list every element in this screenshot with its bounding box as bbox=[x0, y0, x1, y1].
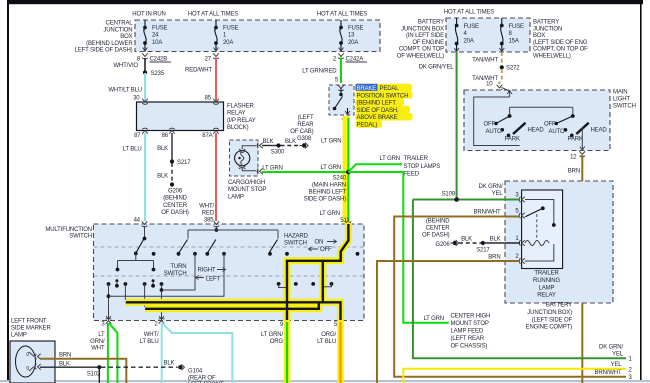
svg-text:2: 2 bbox=[333, 57, 337, 63]
svg-text:20A: 20A bbox=[348, 40, 358, 46]
svg-text:BRN: BRN bbox=[488, 255, 500, 261]
svg-text:20A: 20A bbox=[223, 40, 233, 46]
svg-text:OFF: OFF bbox=[320, 247, 332, 253]
central junction box (fuse box, top left) bbox=[75, 12, 380, 54]
svg-text:LT BLU: LT BLU bbox=[140, 339, 159, 345]
svg-text:SIDE MARKER: SIDE MARKER bbox=[11, 326, 52, 332]
svg-text:G206: G206 bbox=[168, 189, 183, 195]
svg-text:10: 10 bbox=[486, 82, 493, 88]
headlamp switch pole 2 (OFF/AUTO/PARK/HEAD) bbox=[544, 114, 607, 142]
svg-text:85: 85 bbox=[205, 96, 212, 102]
svg-text:BLK: BLK bbox=[461, 237, 472, 243]
fuse 1 20A bbox=[214, 20, 239, 51]
svg-text:10A: 10A bbox=[152, 40, 162, 46]
wire BLK cargo lamp to splice S300 and ground G308 bbox=[262, 115, 314, 156]
svg-text:(BEHIND: (BEHIND bbox=[163, 196, 187, 202]
relay internal contact and coil bbox=[525, 200, 556, 262]
svg-text:JUNCTION BOX): JUNCTION BOX) bbox=[527, 310, 572, 316]
svg-text:LT BLU: LT BLU bbox=[317, 339, 336, 345]
svg-text:LT GRN: LT GRN bbox=[423, 316, 444, 322]
svg-text:FUSE: FUSE bbox=[348, 26, 364, 32]
svg-text:PEDAL): PEDAL) bbox=[357, 123, 378, 129]
wire DK GRN/YEL (S109 left, down, to right edge pin 1) bbox=[413, 200, 626, 359]
wire RED/WHT (pin 27 to flasher pin 85) bbox=[185, 58, 216, 102]
svg-text:2: 2 bbox=[154, 322, 158, 328]
svg-text:TRAILER: TRAILER bbox=[404, 156, 429, 162]
svg-text:GRN/: GRN/ bbox=[90, 339, 105, 345]
svg-text:AUTO: AUTO bbox=[486, 129, 502, 135]
fuse 4 20A bbox=[454, 18, 479, 52]
connector C242A pin 2 bbox=[333, 53, 367, 62]
svg-text:BEHIND LEFT: BEHIND LEFT bbox=[309, 190, 347, 196]
fuse 13 20A bbox=[339, 20, 364, 51]
highlighted wire LT GRN (brake switch pin 4 down to S240/511) bbox=[343, 116, 350, 223]
svg-text:OF ENGINE: OF ENGINE bbox=[412, 40, 444, 46]
svg-text:(BEHIND: (BEHIND bbox=[426, 219, 450, 225]
svg-text:COMPT, ON TOP OF: COMPT, ON TOP OF bbox=[533, 47, 588, 53]
svg-text:JUNCTION: JUNCTION bbox=[103, 27, 132, 33]
svg-text:RED: RED bbox=[202, 211, 215, 217]
svg-text:FEED: FEED bbox=[404, 172, 420, 178]
wire WHT/LT BLU (pin 2 down, two branches) bbox=[140, 323, 233, 383]
svg-text:BLK: BLK bbox=[157, 146, 168, 152]
svg-text:MOUNT STOP: MOUNT STOP bbox=[228, 187, 266, 193]
pin 27 bbox=[205, 53, 219, 62]
wire LT BLU (flasher 87 to multifunction 44) bbox=[123, 133, 145, 224]
svg-text:JUNCTION: JUNCTION bbox=[533, 26, 562, 32]
splice S109 on DK GRN/YEL bbox=[413, 184, 520, 202]
svg-text:OF CAB): OF CAB) bbox=[290, 129, 313, 135]
svg-text:27: 27 bbox=[205, 57, 212, 63]
svg-text:SWITCH: SWITCH bbox=[284, 241, 307, 247]
turn switch contact row bbox=[107, 279, 334, 287]
svg-text:LT GRN: LT GRN bbox=[320, 165, 341, 171]
svg-text:S109: S109 bbox=[442, 192, 456, 198]
flasher relay (I/P relay block) bbox=[134, 99, 256, 139]
svg-text:REAR: REAR bbox=[297, 122, 314, 128]
svg-text:LT GRN/RED: LT GRN/RED bbox=[302, 69, 337, 75]
svg-text:YEL: YEL bbox=[611, 362, 623, 368]
wire LT GRN cargo lamp to splice S240 bbox=[262, 165, 348, 172]
svg-text:BOX: BOX bbox=[533, 33, 545, 39]
svg-text:(LEFT: (LEFT bbox=[298, 115, 314, 121]
wire BRN (relay pin 2 left then down off-page) bbox=[377, 255, 520, 383]
wire YEL (from bottom edge to right edge pin 2) bbox=[403, 362, 632, 383]
svg-text:RUNNING: RUNNING bbox=[533, 278, 560, 284]
svg-text:RELAY: RELAY bbox=[537, 293, 556, 299]
svg-text:POSITION SWITCH: POSITION SWITCH bbox=[357, 93, 409, 99]
svg-text:LEFT FRONT: LEFT FRONT bbox=[11, 319, 47, 325]
svg-text:BLK: BLK bbox=[164, 361, 175, 367]
svg-text:(MAIN HARN: (MAIN HARN bbox=[312, 183, 346, 189]
svg-text:HAZARD: HAZARD bbox=[284, 234, 309, 240]
svg-text:LAMP: LAMP bbox=[228, 194, 244, 200]
multifunction switch box bbox=[45, 224, 364, 321]
svg-text:MOUNT STOP: MOUNT STOP bbox=[451, 321, 489, 327]
svg-text:RIGHT: RIGHT bbox=[198, 268, 216, 274]
brake pedal position switch (highlighted) bbox=[329, 85, 354, 123]
wire LT GRN trailer stop lamps feed stub bbox=[348, 156, 440, 178]
svg-text:YEL: YEL bbox=[492, 191, 504, 197]
multifunction pins 3 / 2 / 9 / 5 (bottom) bbox=[106, 321, 112, 324]
svg-text:(LEFT REAR: (LEFT REAR bbox=[451, 336, 485, 342]
svg-text:DK GRN/: DK GRN/ bbox=[599, 345, 623, 351]
svg-text:44: 44 bbox=[134, 218, 141, 224]
svg-text:FUSE: FUSE bbox=[223, 26, 239, 32]
wire ORG/LT BLU highlighted (pin 5 down) bbox=[317, 320, 344, 383]
svg-text:SWITCH: SWITCH bbox=[164, 271, 187, 277]
main light switch bbox=[464, 88, 636, 151]
svg-text:LEFT: LEFT bbox=[206, 277, 221, 283]
wire LT GRN/RED (C242A to brake switch pin 5) bbox=[302, 58, 341, 84]
svg-text:BRAKE: BRAKE bbox=[357, 86, 377, 92]
svg-text:WHT/VIO: WHT/VIO bbox=[113, 63, 138, 69]
ground G206 behind center of dash (relay side) with splice S217 bbox=[422, 219, 520, 254]
svg-text:WHT/LT BLU: WHT/LT BLU bbox=[108, 88, 142, 94]
svg-text:DK GRN/YEL: DK GRN/YEL bbox=[419, 65, 455, 71]
svg-text:ORG: ORG bbox=[270, 339, 284, 345]
splice S240 bbox=[346, 170, 351, 175]
svg-text:15A: 15A bbox=[509, 38, 519, 44]
svg-text:WHT/: WHT/ bbox=[199, 204, 214, 210]
hazard switch contact stubs bbox=[279, 284, 286, 287]
wire WHT/LT BLU (S235 to flasher pin 30) bbox=[108, 73, 145, 102]
svg-text:BRN: BRN bbox=[59, 353, 71, 359]
svg-text:BLOCK): BLOCK) bbox=[227, 125, 249, 131]
svg-text:YEL: YEL bbox=[612, 352, 624, 358]
svg-text:WHEELWELL): WHEELWELL) bbox=[533, 54, 571, 60]
cargo/high mount stop lamp bbox=[228, 140, 266, 200]
svg-text:ABOVE BRAKE: ABOVE BRAKE bbox=[357, 115, 398, 121]
svg-text:ON: ON bbox=[315, 240, 324, 246]
relay pin 3 bbox=[515, 193, 524, 203]
svg-text:CARGO/HIGH: CARGO/HIGH bbox=[228, 180, 265, 186]
svg-text:HOT IN RUN: HOT IN RUN bbox=[132, 12, 165, 18]
svg-text:OFF: OFF bbox=[544, 122, 556, 128]
svg-text:TURN: TURN bbox=[170, 264, 186, 270]
svg-text:TAN/WHT: TAN/WHT bbox=[472, 58, 498, 64]
svg-text:TRAILER: TRAILER bbox=[534, 271, 559, 277]
svg-text:RED/WHT: RED/WHT bbox=[185, 68, 212, 74]
wire frame: left border line bbox=[7, 0, 9, 381]
wire BLK with splice S217 to ground G206 bbox=[157, 133, 191, 216]
svg-text:MULTIFUNCTION: MULTIFUNCTION bbox=[45, 227, 92, 233]
svg-text:BRN/WHT: BRN/WHT bbox=[474, 210, 501, 216]
svg-text:13: 13 bbox=[348, 33, 355, 39]
wire LT GRN/WHT (pin 3 down, two branches) bbox=[90, 323, 117, 383]
fuse 24 10A bbox=[143, 20, 168, 51]
svg-text:(BEHIND LOWER: (BEHIND LOWER bbox=[86, 41, 133, 47]
wire BLK with splice S102 to ground G104 bbox=[40, 361, 224, 383]
svg-text:3: 3 bbox=[101, 322, 105, 328]
svg-text:S235: S235 bbox=[151, 71, 165, 77]
svg-text:G308: G308 bbox=[297, 136, 312, 142]
highlighted hazard feed path (yellow) bbox=[126, 223, 349, 320]
svg-text:WHT/: WHT/ bbox=[144, 332, 159, 338]
svg-text:BRN: BRN bbox=[568, 169, 580, 175]
svg-text:CENTRAL: CENTRAL bbox=[106, 21, 134, 27]
svg-text:FLASHER: FLASHER bbox=[227, 104, 254, 110]
svg-text:LAMP FEED: LAMP FEED bbox=[451, 329, 484, 335]
svg-text:87A: 87A bbox=[202, 133, 212, 139]
svg-text:LT: LT bbox=[98, 332, 105, 338]
svg-text:SIDE OF DASH): SIDE OF DASH) bbox=[304, 197, 347, 203]
svg-text:HEAD: HEAD bbox=[528, 128, 545, 134]
svg-text:8: 8 bbox=[137, 57, 141, 63]
svg-text:PARK: PARK bbox=[505, 136, 520, 142]
svg-text:FUSE: FUSE bbox=[509, 24, 525, 30]
svg-text:FUSE: FUSE bbox=[152, 26, 168, 32]
svg-text:BLK: BLK bbox=[285, 139, 296, 145]
svg-text:BOX: BOX bbox=[120, 34, 132, 40]
multifunction pins 44 / 385 / 511 (top) bbox=[142, 221, 148, 224]
svg-text:WHT: WHT bbox=[91, 345, 105, 351]
svg-text:0: 0 bbox=[26, 352, 29, 358]
svg-text:12: 12 bbox=[570, 155, 577, 161]
svg-text:LT GRN/: LT GRN/ bbox=[261, 332, 284, 338]
svg-text:S300: S300 bbox=[271, 150, 285, 156]
internal wire pin2 column bbox=[161, 284, 163, 320]
svg-text:(LEFT SIDE OF ENG: (LEFT SIDE OF ENG bbox=[533, 40, 588, 46]
trailer running lamp relay inner body bbox=[522, 190, 563, 269]
svg-text:ENGINE COMPT): ENGINE COMPT) bbox=[526, 325, 573, 331]
svg-text:G206: G206 bbox=[435, 242, 450, 248]
svg-text:20A: 20A bbox=[464, 38, 474, 44]
svg-text:87: 87 bbox=[134, 133, 141, 139]
turn switch internal wiring bbox=[116, 226, 360, 283]
ground G308 (left rear of cab) bbox=[302, 143, 306, 147]
headlamp switch pole 1 (OFF/AUTO/PARK/HEAD) bbox=[483, 114, 544, 142]
svg-text:OF WHEELWELL): OF WHEELWELL) bbox=[397, 54, 444, 60]
svg-text:0: 0 bbox=[26, 366, 29, 372]
wire WHT/RED (flasher 87A to multifunction 385) bbox=[199, 133, 216, 224]
wire BRN (marker lamp down) bbox=[40, 353, 126, 383]
svg-text:LT GRN: LT GRN bbox=[379, 156, 400, 162]
svg-text:9: 9 bbox=[280, 322, 284, 328]
svg-text:(REAR OF: (REAR OF bbox=[188, 375, 216, 381]
svg-text:LEFT SIDE OF DASH): LEFT SIDE OF DASH) bbox=[75, 48, 133, 54]
wire LT GRN (S240 right then down centre-high-mount feed) bbox=[348, 172, 448, 323]
svg-text:OF DASH): OF DASH) bbox=[422, 233, 450, 239]
svg-text:LT GRN: LT GRN bbox=[319, 211, 340, 217]
svg-text:AUTO: AUTO bbox=[549, 129, 565, 135]
svg-text:385: 385 bbox=[204, 218, 214, 224]
svg-text:PEDAL: PEDAL bbox=[380, 86, 400, 92]
svg-text:30: 30 bbox=[133, 96, 140, 102]
wire WHT/VIO with splice S235 bbox=[113, 58, 164, 77]
svg-text:JUNCTION BOX: JUNCTION BOX bbox=[401, 26, 444, 32]
svg-text:(IN LEFT SIDE: (IN LEFT SIDE bbox=[406, 33, 444, 39]
svg-text:OF CHASSIS): OF CHASSIS) bbox=[451, 344, 488, 350]
svg-text:S272: S272 bbox=[506, 66, 520, 72]
fuse 8 15A bbox=[499, 18, 524, 52]
svg-text:BLK: BLK bbox=[263, 139, 274, 145]
svg-text:RELAY: RELAY bbox=[227, 111, 246, 117]
highlighted label: brake pedal position switch text bbox=[356, 84, 413, 129]
svg-text:OFF: OFF bbox=[483, 122, 495, 128]
relay pin 2 bbox=[515, 254, 524, 264]
svg-text:HOT AT ALL TIMES: HOT AT ALL TIMES bbox=[317, 12, 367, 18]
svg-text:LIGHT: LIGHT bbox=[613, 97, 630, 103]
svg-text:CENTER: CENTER bbox=[426, 226, 451, 232]
battery junction box (fuses 4 and 8) bbox=[397, 10, 588, 60]
svg-text:HOT AT ALL TIMES: HOT AT ALL TIMES bbox=[444, 10, 494, 16]
svg-text:COMPT. ON TOP: COMPT. ON TOP bbox=[399, 47, 444, 53]
wire TAN/WHT with splice S272 to main light switch pin 10 bbox=[472, 52, 520, 90]
wire frame: right border line bbox=[640, 3, 642, 381]
wire DK GRN/YEL (fuse 4 down to S109) bbox=[419, 52, 457, 200]
svg-text:SIDE OF DASH,: SIDE OF DASH, bbox=[357, 108, 400, 114]
svg-text:BLK: BLK bbox=[157, 174, 168, 180]
svg-text:LAMP: LAMP bbox=[539, 285, 555, 291]
svg-text:SWITCH: SWITCH bbox=[613, 104, 636, 110]
svg-text:86: 86 bbox=[162, 133, 169, 139]
wire LT GRN/ORG highlighted (pin 9 down) bbox=[261, 320, 290, 383]
relay pin 1 bbox=[515, 236, 524, 246]
svg-text:S217: S217 bbox=[177, 160, 191, 166]
svg-text:LT GRN: LT GRN bbox=[262, 166, 283, 172]
svg-text:BLK: BLK bbox=[59, 361, 70, 367]
svg-text:CENTER HIGH: CENTER HIGH bbox=[451, 314, 491, 320]
wire BRN/WHT (relay pin 5 left, down, to right edge pin 3) bbox=[394, 210, 632, 382]
trailer running lamp relay outer box (battery junction box) bbox=[505, 181, 613, 303]
svg-text:2: 2 bbox=[629, 368, 633, 374]
main light switch pin 12 bbox=[570, 128, 585, 161]
svg-text:LT BLU: LT BLU bbox=[123, 147, 142, 153]
svg-text:BLK: BLK bbox=[490, 237, 501, 243]
svg-text:HEAD: HEAD bbox=[591, 128, 608, 134]
internal wire pin3 column bbox=[108, 284, 110, 320]
svg-text:1: 1 bbox=[629, 357, 633, 363]
svg-text:SWITCH: SWITCH bbox=[69, 234, 92, 240]
svg-text:FUSE: FUSE bbox=[464, 24, 480, 30]
svg-text:LAMP: LAMP bbox=[11, 333, 27, 339]
svg-text:ORG/: ORG/ bbox=[321, 332, 336, 338]
wire frame: top black border bar bbox=[7, 0, 643, 4]
svg-text:S240: S240 bbox=[333, 176, 347, 182]
svg-text:MAIN: MAIN bbox=[613, 90, 627, 96]
svg-text:CENTER: CENTER bbox=[163, 203, 188, 209]
svg-text:PARK: PARK bbox=[568, 136, 583, 142]
svg-text:DK GRN/: DK GRN/ bbox=[479, 184, 503, 190]
svg-text:BATTERY: BATTERY bbox=[418, 20, 444, 26]
svg-text:HOT AT ALL TIMES: HOT AT ALL TIMES bbox=[188, 12, 238, 18]
svg-text:(BEHIND LEFT: (BEHIND LEFT bbox=[357, 101, 397, 107]
svg-text:24: 24 bbox=[152, 33, 159, 39]
svg-text:S217: S217 bbox=[476, 248, 490, 254]
svg-text:(LEFT SIDE OF: (LEFT SIDE OF bbox=[532, 317, 573, 323]
wire frame: bottom gray rule bbox=[0, 380, 650, 382]
svg-text:STOP LAMPS: STOP LAMPS bbox=[404, 164, 441, 170]
svg-text:BATTERY: BATTERY bbox=[546, 303, 572, 309]
internal wires to highlighted buses bbox=[124, 284, 126, 300]
svg-text:G104: G104 bbox=[188, 369, 203, 375]
wire BRN (main light switch pin 12 down off-page) bbox=[568, 155, 583, 383]
svg-text:BATTERY: BATTERY bbox=[533, 20, 559, 26]
connector C242B pin 8 bbox=[137, 53, 171, 62]
svg-text:OF DASH): OF DASH) bbox=[161, 210, 189, 216]
svg-text:5: 5 bbox=[335, 78, 339, 84]
relay pin 5 bbox=[515, 209, 524, 219]
svg-text:(I/P RELAY: (I/P RELAY bbox=[227, 118, 256, 124]
svg-text:LT GRN: LT GRN bbox=[321, 139, 342, 145]
hazard switch labels bbox=[284, 234, 337, 254]
svg-text:BRN/WHT: BRN/WHT bbox=[595, 370, 622, 376]
left front side marker lamp bbox=[10, 319, 55, 383]
